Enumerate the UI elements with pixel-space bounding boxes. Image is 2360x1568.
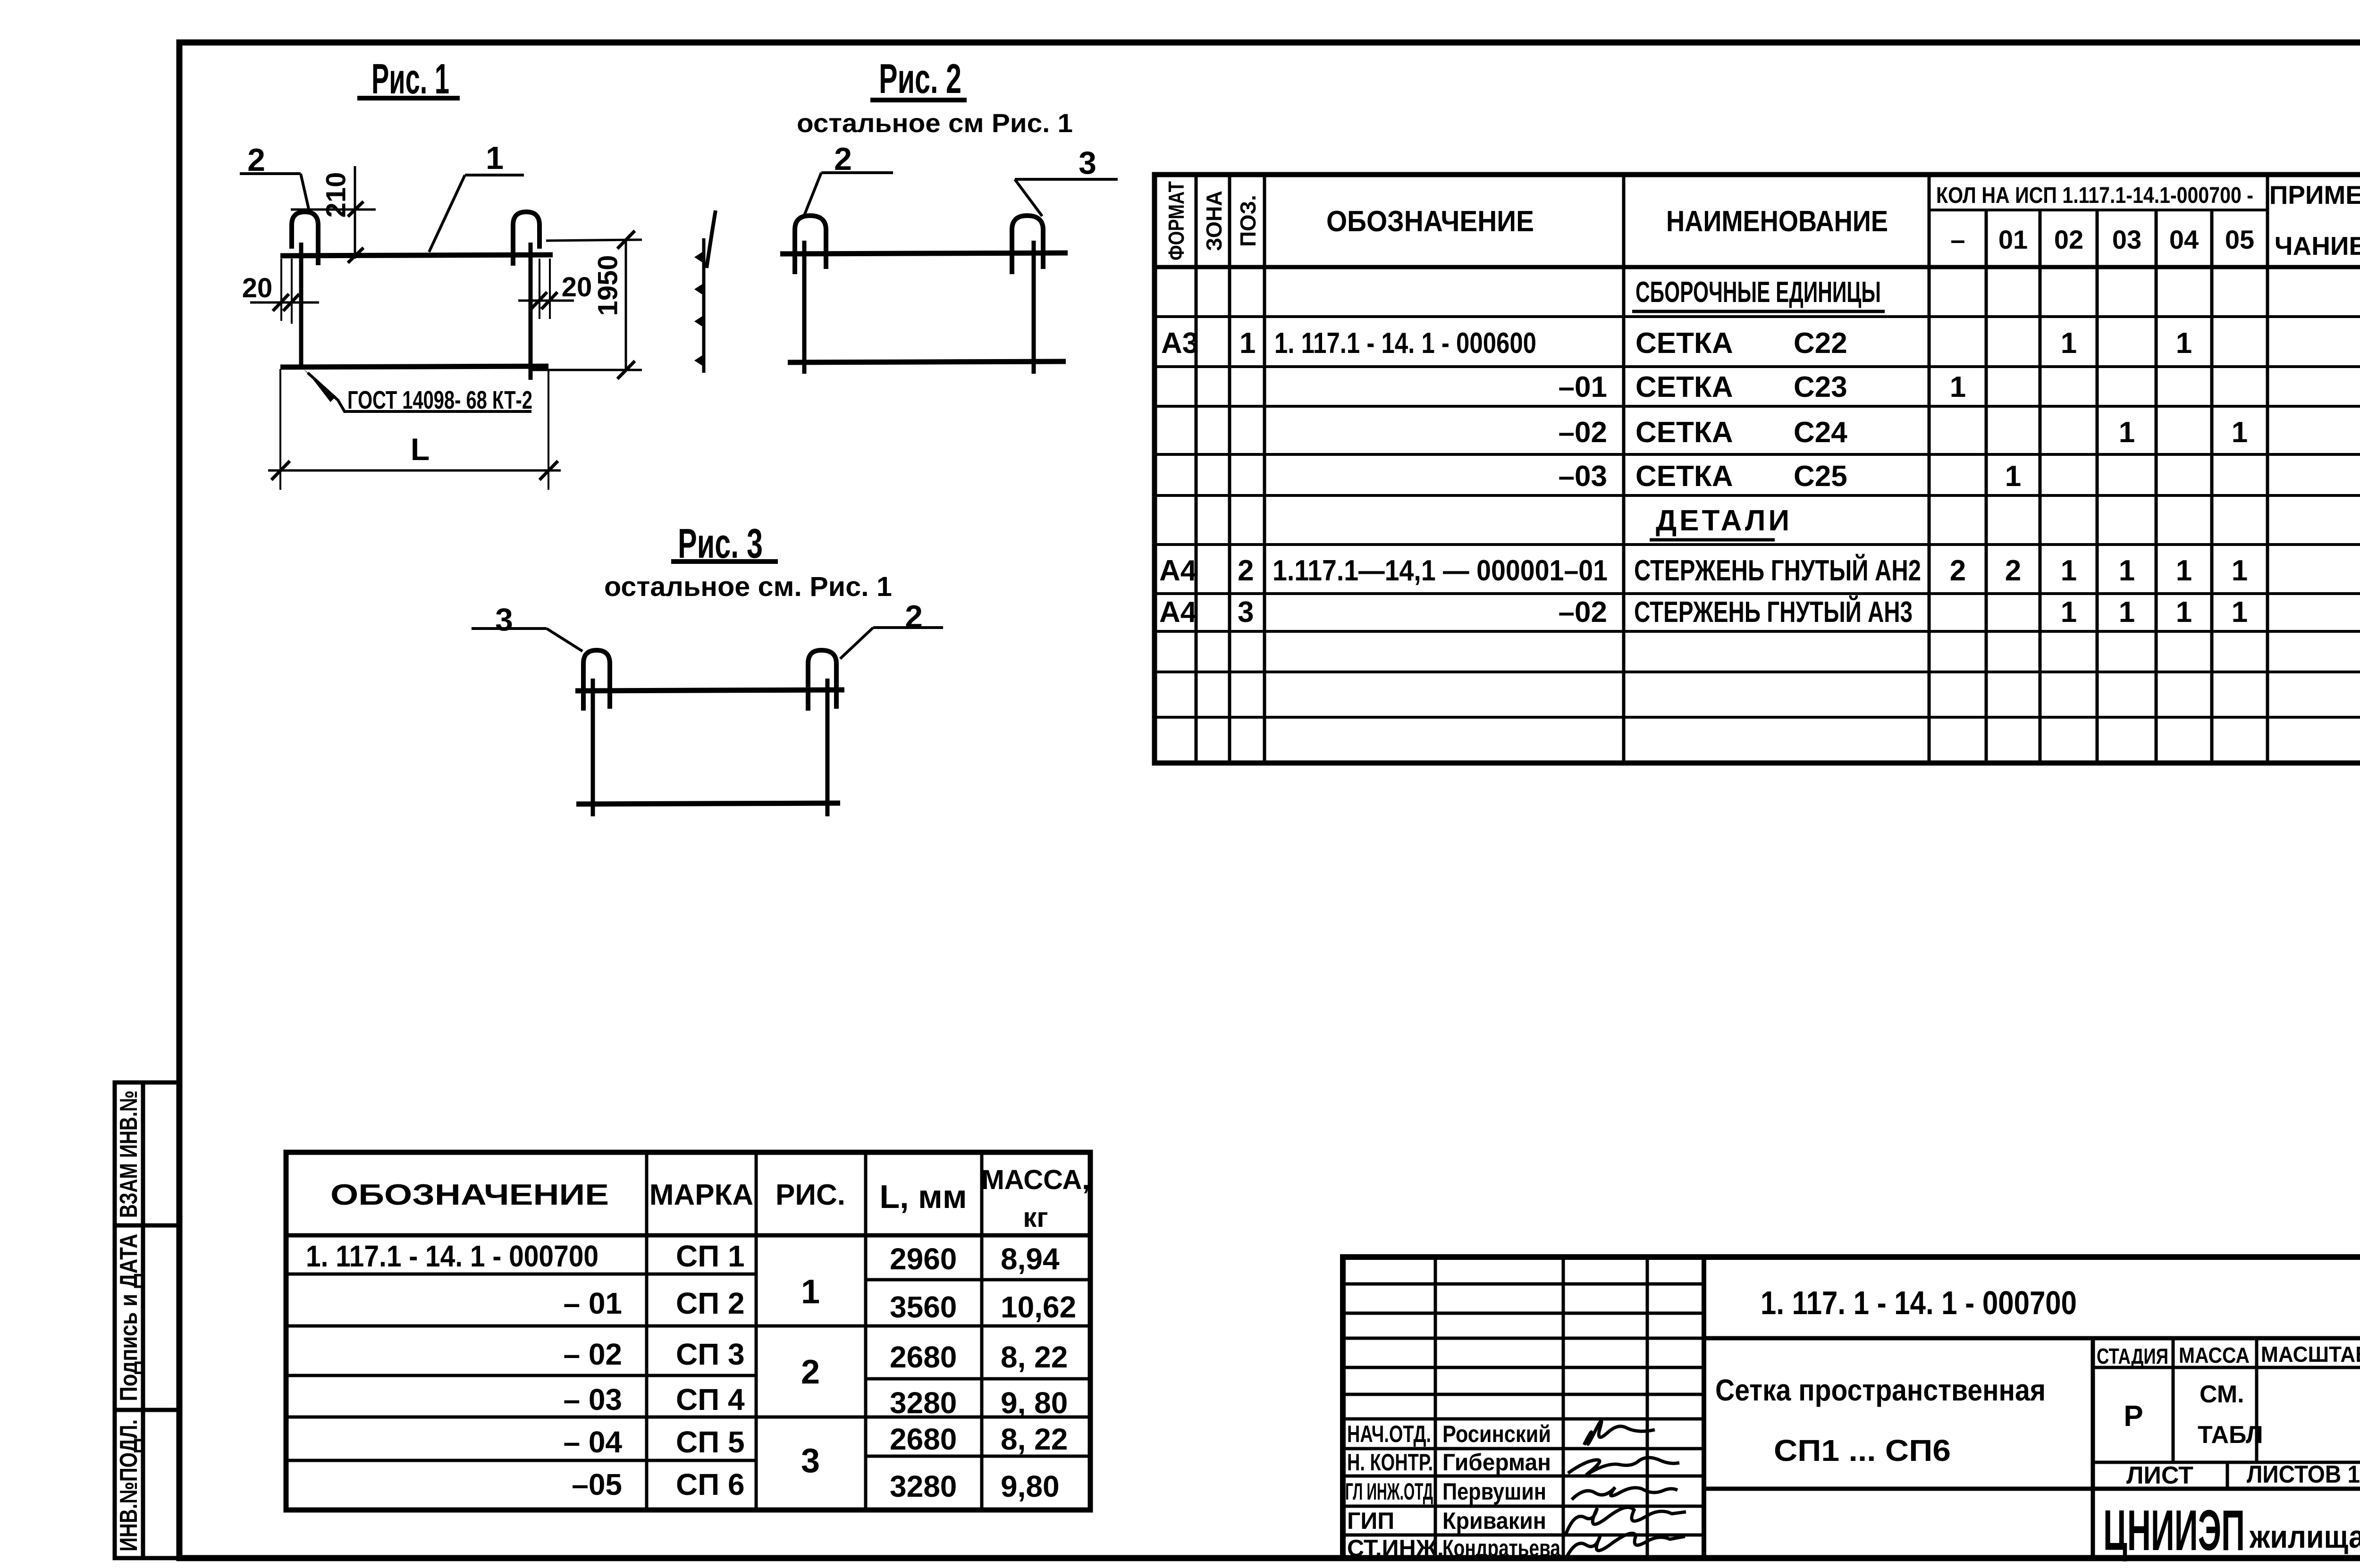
svg-text:9,80: 9,80: [1001, 1469, 1060, 1503]
svg-text:9, 80: 9, 80: [1001, 1386, 1068, 1420]
svg-text:СЕТКА: СЕТКА: [1635, 327, 1733, 360]
svg-text:ДЕТАЛИ: ДЕТАЛИ: [1656, 504, 1792, 537]
svg-text:ЧАНИЕ: ЧАНИЕ: [2275, 231, 2360, 260]
svg-text:СП 6: СП 6: [676, 1467, 745, 1501]
svg-text:МАССА,: МАССА,: [981, 1165, 1089, 1195]
svg-text:04: 04: [2169, 225, 2199, 254]
svg-text:–01: –01: [1559, 371, 1607, 403]
svg-text:1: 1: [2061, 554, 2077, 587]
svg-text:2680: 2680: [890, 1340, 957, 1374]
svg-text:–02: –02: [1559, 596, 1607, 629]
svg-text:1: 1: [2119, 416, 2135, 449]
svg-text:ИНВ.№ПОДЛ.: ИНВ.№ПОДЛ.: [115, 1419, 143, 1551]
svg-text:1950: 1950: [593, 255, 624, 316]
svg-text:СЕТКА: СЕТКА: [1635, 416, 1733, 449]
svg-text:1: 1: [1950, 371, 1966, 403]
svg-text:СМ.: СМ.: [2200, 1381, 2244, 1408]
svg-text:ПРИМЕ-: ПРИМЕ-: [2269, 180, 2360, 210]
svg-text:ОБОЗНАЧЕНИЕ: ОБОЗНАЧЕНИЕ: [330, 1179, 609, 1211]
svg-text:8, 22: 8, 22: [1001, 1340, 1068, 1374]
svg-text:– 02: – 02: [563, 1337, 622, 1371]
svg-text:ГОСТ 14098- 68 КТ-2: ГОСТ 14098- 68 КТ-2: [347, 386, 532, 414]
svg-text:МАРКА: МАРКА: [649, 1179, 753, 1211]
svg-text:–02: –02: [1559, 416, 1607, 449]
svg-text:1: 1: [2232, 416, 2248, 449]
svg-text:С25: С25: [1794, 460, 1847, 493]
svg-text:СТЕРЖЕНЬ ГНУТЫЙ АН2: СТЕРЖЕНЬ ГНУТЫЙ АН2: [1634, 554, 1921, 587]
svg-text:1: 1: [2005, 460, 2021, 493]
svg-text:3560: 3560: [890, 1290, 957, 1324]
svg-text:–: –: [1950, 225, 1965, 254]
svg-text:СТ.ИНЖ.: СТ.ИНЖ.: [1347, 1535, 1444, 1561]
svg-text:ВЗАМ ИНВ.№: ВЗАМ ИНВ.№: [115, 1090, 143, 1218]
svg-text:СЕТКА: СЕТКА: [1635, 371, 1733, 403]
svg-text:Сетка пространственная: Сетка пространственная: [1715, 1373, 2046, 1407]
svg-text:2: 2: [801, 1353, 820, 1391]
svg-text:ЦНИИЭП: ЦНИИЭП: [2103, 1498, 2245, 1562]
svg-text:1: 1: [2119, 596, 2135, 629]
svg-text:–03: –03: [1559, 460, 1607, 493]
svg-text:3: 3: [495, 602, 513, 637]
svg-text:1. 117.1 - 14. 1 - 000600: 1. 117.1 - 14. 1 - 000600: [1274, 327, 1536, 360]
svg-text:2: 2: [2005, 554, 2021, 587]
svg-text:СП 4: СП 4: [676, 1383, 745, 1417]
svg-text:2: 2: [1950, 554, 1966, 587]
svg-text:жилища: жилища: [2249, 1519, 2360, 1555]
svg-text:ЗОНА: ЗОНА: [1202, 191, 1226, 251]
svg-text:ТАБЛ: ТАБЛ: [2198, 1421, 2263, 1449]
svg-text:А4: А4: [1159, 554, 1197, 587]
svg-text:02: 02: [2054, 225, 2083, 254]
svg-text:РИС.: РИС.: [775, 1179, 845, 1211]
svg-text:Первушин: Первушин: [1442, 1478, 1546, 1505]
svg-text:1: 1: [486, 140, 504, 176]
svg-text:СП1 ... СП6: СП1 ... СП6: [1774, 1434, 1951, 1467]
svg-text:8,94: 8,94: [1001, 1242, 1060, 1276]
svg-text:1: 1: [1239, 327, 1256, 360]
svg-text:1: 1: [2119, 554, 2135, 587]
svg-text:2: 2: [1238, 554, 1254, 587]
svg-text:1. 117. 1 - 14. 1 - 000700: 1. 117. 1 - 14. 1 - 000700: [1761, 1284, 2077, 1321]
svg-text:2680: 2680: [890, 1422, 957, 1456]
svg-text:ПОЗ.: ПОЗ.: [1236, 195, 1260, 247]
svg-text:КОЛ НА ИСП 1.117.1-14.1-000700: КОЛ НА ИСП 1.117.1-14.1-000700 -: [1936, 183, 2253, 208]
svg-text:210: 210: [321, 172, 352, 218]
svg-text:Рис. 2: Рис. 2: [879, 55, 961, 102]
svg-text:А3: А3: [1161, 327, 1198, 360]
svg-text:Р: Р: [2124, 1400, 2143, 1433]
svg-text:–05: –05: [572, 1467, 622, 1501]
svg-text:МАСШТАБ: МАСШТАБ: [2261, 1342, 2360, 1367]
svg-text:СТАДИЯ: СТАДИЯ: [2097, 1344, 2168, 1368]
svg-text:03: 03: [2112, 225, 2141, 254]
svg-text:МАССА: МАССА: [2179, 1343, 2250, 1367]
svg-text:ФОРМАТ: ФОРМАТ: [1164, 181, 1188, 260]
svg-text:остальное см. Рис. 1: остальное см. Рис. 1: [604, 571, 892, 602]
svg-text:ГИП: ГИП: [1347, 1508, 1394, 1534]
svg-text:– 04: – 04: [563, 1425, 622, 1459]
svg-text:ГЛ ИНЖ.ОТД: ГЛ ИНЖ.ОТД: [1345, 1478, 1433, 1505]
svg-text:1. 117.1 - 14. 1 - 000700: 1. 117.1 - 14. 1 - 000700: [306, 1239, 598, 1273]
svg-text:1: 1: [2232, 554, 2248, 587]
svg-text:Подпись и ДАТА: Подпись и ДАТА: [115, 1234, 143, 1401]
svg-text:05: 05: [2225, 225, 2254, 254]
svg-text:1: 1: [801, 1273, 820, 1311]
svg-text:СП 5: СП 5: [676, 1425, 745, 1459]
svg-text:НАЧ.ОТД.: НАЧ.ОТД.: [1347, 1421, 1431, 1447]
svg-text:С24: С24: [1794, 416, 1847, 449]
svg-text:3: 3: [1079, 145, 1096, 181]
svg-text:С23: С23: [1794, 371, 1847, 403]
svg-text:3280: 3280: [890, 1386, 957, 1420]
svg-text:СБОРОЧНЫЕ ЕДИНИЦЫ: СБОРОЧНЫЕ ЕДИНИЦЫ: [1635, 276, 1881, 309]
svg-text:1: 1: [2232, 596, 2248, 629]
svg-text:НАИМЕНОВАНИЕ: НАИМЕНОВАНИЕ: [1666, 205, 1888, 238]
svg-text:ЛИСТОВ 1: ЛИСТОВ 1: [2247, 1461, 2360, 1488]
svg-text:20: 20: [242, 273, 273, 303]
svg-text:СТЕРЖЕНЬ ГНУТЫЙ АН3: СТЕРЖЕНЬ ГНУТЫЙ АН3: [1634, 595, 1913, 629]
svg-text:Кривакин: Кривакин: [1442, 1508, 1546, 1534]
svg-text:1: 1: [2061, 327, 2077, 360]
svg-text:3: 3: [801, 1442, 820, 1480]
svg-text:01: 01: [1998, 225, 2028, 254]
svg-text:ЛИСТ: ЛИСТ: [2126, 1462, 2193, 1489]
svg-text:8, 22: 8, 22: [1001, 1422, 1068, 1456]
svg-text:кг: кг: [1023, 1202, 1048, 1233]
svg-text:20: 20: [562, 272, 592, 302]
svg-text:А4: А4: [1159, 596, 1197, 629]
svg-text:2: 2: [905, 599, 923, 635]
svg-text:1: 1: [2176, 596, 2192, 629]
svg-text:2960: 2960: [890, 1242, 957, 1276]
svg-text:L: L: [411, 432, 430, 467]
svg-text:3280: 3280: [890, 1469, 957, 1503]
svg-text:1: 1: [2061, 596, 2077, 629]
svg-text:СЕТКА: СЕТКА: [1635, 460, 1733, 493]
svg-text:1.117.1—14,1 — 000001–01: 1.117.1—14,1 — 000001–01: [1273, 554, 1608, 587]
svg-text:Кондратьева: Кондратьева: [1442, 1535, 1561, 1561]
svg-text:СП 2: СП 2: [676, 1286, 745, 1320]
svg-text:1: 1: [2176, 554, 2192, 587]
svg-text:Росинский: Росинский: [1442, 1421, 1551, 1447]
svg-text:– 03: – 03: [563, 1383, 622, 1417]
svg-text:3: 3: [1238, 596, 1254, 629]
svg-text:Н. КОНТР.: Н. КОНТР.: [1347, 1449, 1433, 1476]
svg-text:1: 1: [2176, 327, 2192, 360]
svg-text:L, мм: L, мм: [879, 1178, 967, 1215]
svg-text:СП 1: СП 1: [676, 1239, 745, 1273]
svg-text:СП 3: СП 3: [676, 1337, 745, 1371]
svg-text:С22: С22: [1794, 327, 1847, 360]
svg-text:Гиберман: Гиберман: [1442, 1449, 1551, 1476]
svg-text:остальное см Рис. 1: остальное см Рис. 1: [797, 108, 1073, 138]
svg-text:– 01: – 01: [563, 1286, 622, 1320]
svg-text:ОБОЗНАЧЕНИЕ: ОБОЗНАЧЕНИЕ: [1326, 205, 1534, 238]
svg-text:10,62: 10,62: [1001, 1290, 1076, 1324]
